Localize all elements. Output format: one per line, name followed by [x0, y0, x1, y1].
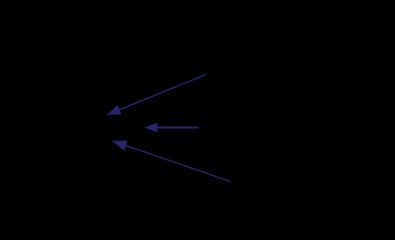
arrow 1 (top diagonal, pointing down-left) [107, 75, 207, 116]
arrow 3 (bottom diagonal, pointing up-left) [111, 141, 230, 182]
arrow 2 (middle horizontal, pointing left) [144, 123, 199, 132]
